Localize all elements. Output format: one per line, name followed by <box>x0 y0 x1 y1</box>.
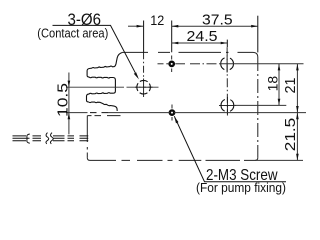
svg-text:37.5: 37.5 <box>202 12 233 29</box>
dimension 24.5 <box>172 40 228 48</box>
nozzle centerline <box>66 86 121 88</box>
extension line y=105.4 <box>234 104 286 106</box>
vertical centerline through right circles <box>226 47 228 115</box>
svg-text:(For pump fixing): (For pump fixing) <box>196 181 286 195</box>
pump body outline (phantom rounded rectangle) <box>87 52 257 160</box>
left edge <box>86 116 88 158</box>
svg-text:18: 18 <box>264 76 280 92</box>
bottom-left corner <box>87 158 90 161</box>
suction tube (three lines with breaks) <box>13 133 89 144</box>
contact hole crosshair <box>135 79 153 98</box>
dimension 12 <box>128 25 143 28</box>
right edge <box>257 57 259 158</box>
contact hole (3-ø6) left circle <box>137 80 151 94</box>
top edge <box>123 51 253 53</box>
extension line y=160.6 bottom right <box>255 159 303 161</box>
dimension 21 <box>296 64 299 113</box>
dimension 21.5 <box>296 113 299 161</box>
dimension 18 <box>278 64 281 106</box>
barbed nozzle fitting (solid outline) <box>87 52 123 111</box>
contact circle bottom-right (ø6) <box>221 99 234 112</box>
M3 screw hole top (small ring) <box>170 62 174 66</box>
svg-text:24.5: 24.5 <box>187 28 218 45</box>
M3 screw hole bottom (small ring) <box>170 110 174 114</box>
tube break bracket <box>26 134 30 143</box>
svg-text:21: 21 <box>282 78 299 94</box>
extension line from ø6 hole up (x=143.6) <box>143 21 145 53</box>
leader for 2-M3 <box>174 116 286 182</box>
dimension 37.5 <box>172 25 258 28</box>
tube break squiggle 1 <box>46 133 49 144</box>
bottom edge <box>90 159 255 161</box>
svg-text:12: 12 <box>150 12 164 28</box>
svg-text:(Contact area): (Contact area) <box>37 25 108 40</box>
leader for 3-ø6 <box>53 25 138 76</box>
extension line from M3 ring up (x=171.7) <box>171 21 173 53</box>
svg-text:21.5: 21.5 <box>282 118 299 152</box>
tube break squiggle 2 <box>50 133 53 144</box>
extension line for 37.5 right (x=257.8) <box>257 16 259 53</box>
top-right corner <box>253 52 258 57</box>
M3 vertical center dashes <box>171 56 173 121</box>
extension line y=63.8 to right dims <box>158 63 186 65</box>
left top step dashes <box>87 115 120 117</box>
bottom-right corner <box>255 158 258 161</box>
svg-text:10.5: 10.5 <box>54 83 71 117</box>
extension line y=112.6 <box>66 112 88 114</box>
contact circle top-right (ø6) <box>221 57 234 70</box>
dimension 10.5 <box>68 73 71 135</box>
